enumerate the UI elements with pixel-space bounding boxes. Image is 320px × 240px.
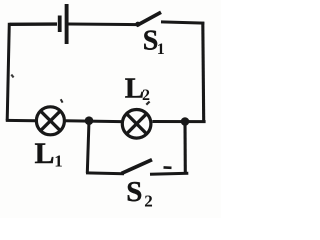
label S1 (143, 26, 165, 59)
wire battery to switch S1 (69, 23, 138, 27)
label L2 (125, 73, 150, 105)
lamp L1 cross stroke 2 (41, 111, 61, 131)
svg-text:1: 1 (157, 41, 165, 58)
junction A node dot (85, 116, 94, 125)
wire sub-loop right vertical (up to junction B) (183, 122, 186, 174)
wire S1 right to top-right corner (161, 22, 204, 23)
wire right vertical (201, 22, 205, 122)
svg-text:L: L (35, 137, 55, 170)
wire sub-loop bottom right segment (150, 173, 188, 174)
lamp L2 circle (122, 110, 151, 139)
switch S1 pivot contact (135, 22, 140, 27)
switch S2 blade (open) (122, 160, 153, 174)
speck left margin (11, 75, 13, 78)
battery B1 long plate (positive) (65, 4, 69, 44)
speck near label L2 subscript (146, 102, 149, 105)
wire L1 to junction A to lamp L2 (66, 119, 121, 123)
switch S2 right contact tick (164, 166, 172, 169)
svg-text:1: 1 (54, 152, 63, 171)
speck above lamp L1 (61, 99, 63, 102)
lamp L2 cross stroke 2 (127, 114, 147, 134)
svg-text:2: 2 (142, 87, 150, 104)
wire middle left (left edge to lamp L1) (6, 119, 36, 122)
svg-text:2: 2 (144, 192, 153, 211)
label S2 (126, 176, 152, 211)
switch S1 blade (open) (137, 12, 162, 25)
label L1 (35, 137, 63, 171)
lamp L1 circle (36, 107, 64, 135)
wire top-left horizontal (corner to battery) (10, 22, 58, 26)
junction B node dot (181, 117, 190, 126)
wire left vertical (7, 23, 9, 121)
lamp L2 cross stroke 1 (127, 114, 147, 134)
wire sub-loop bottom left segment (86, 171, 124, 175)
svg-text:S: S (126, 176, 142, 208)
wire sub-loop left vertical (junction A down) (87, 121, 89, 173)
wire L2 to junction B to right edge (152, 120, 205, 123)
lamp L1 cross stroke 1 (41, 111, 61, 131)
battery B1 short thick plate (negative) (58, 16, 62, 33)
